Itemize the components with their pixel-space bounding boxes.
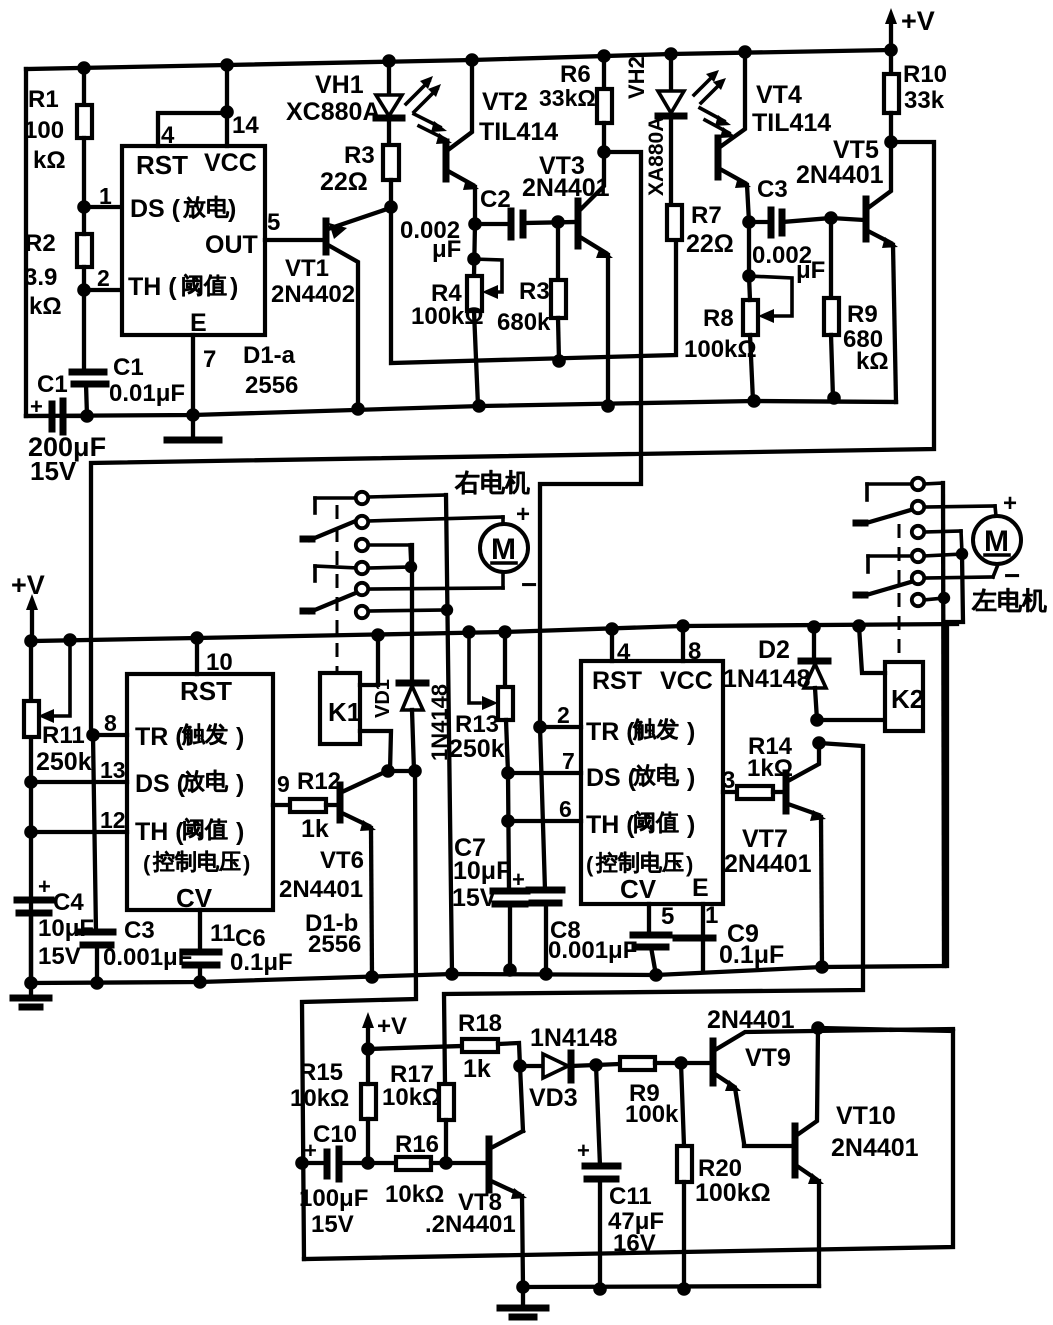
svg-text:): ): [236, 770, 244, 798]
wire pin 13 DS: [31, 757, 127, 783]
svg-text:6: 6: [559, 796, 572, 822]
capacitor C10 100uF: [295, 1121, 368, 1238]
wire pin 1 DS: [84, 205, 122, 209]
svg-text:C3: C3: [757, 176, 788, 203]
svg-text:12: 12: [100, 807, 126, 833]
diode VD3 1N4148: [520, 1024, 618, 1112]
capacitor C6 0.1uF on pin 11: [183, 910, 293, 989]
potentiometer R8 100k: [684, 222, 792, 401]
svg-text:C3: C3: [124, 917, 155, 944]
svg-text:+: +: [512, 867, 525, 892]
svg-text:CV: CV: [620, 874, 657, 904]
svg-text:0.01μF: 0.01μF: [109, 380, 185, 407]
svg-text:33k: 33k: [904, 87, 945, 114]
node R8 bottom bus: [747, 394, 761, 408]
svg-text:VT1: VT1: [285, 255, 329, 282]
svg-text:1N4148: 1N4148: [530, 1024, 618, 1052]
svg-text:2: 2: [97, 265, 110, 291]
svg-text:CV: CV: [176, 883, 213, 913]
svg-text:R2: R2: [25, 230, 56, 257]
svg-text:R9: R9: [847, 301, 878, 328]
transistor VT4 TIL414: [718, 52, 831, 222]
svg-text:VH2: VH2: [624, 56, 649, 99]
svg-text:): ): [687, 764, 695, 792]
wire collector junction horizontal: [388, 769, 415, 773]
svg-text:+V: +V: [377, 1013, 407, 1040]
op-amp U1 timer D1-a 2556 block: [122, 146, 265, 335]
ground bottom: [500, 1287, 546, 1317]
svg-text:VCC: VCC: [204, 149, 257, 177]
node VD3 cathode junction: [589, 1058, 603, 1072]
svg-text:D2: D2: [758, 636, 790, 664]
svg-text:100kΩ: 100kΩ: [684, 336, 757, 363]
transistor VT1 2N4402: [271, 208, 390, 409]
wire bottom bus of top section: [26, 401, 896, 416]
svg-text:1k: 1k: [301, 815, 329, 843]
node VD3 anode junction: [513, 1059, 527, 1073]
transistor VT5 2N4401: [796, 136, 898, 402]
svg-text:0.1μF: 0.1μF: [719, 941, 784, 969]
svg-text:kΩ: kΩ: [33, 147, 66, 174]
relay contacts K1: [303, 492, 503, 974]
light arrows into VT4: [700, 108, 736, 138]
potentiometer R4 100k: [411, 224, 502, 406]
wire pin 2 TH: [84, 288, 122, 292]
svg-text:8: 8: [104, 710, 117, 736]
svg-text:R16: R16: [395, 1131, 439, 1158]
capacitor C3 0.001uF (middle): [81, 735, 192, 983]
wire bottom block border loop: [304, 1028, 953, 1259]
wire bottom ground line: [523, 1286, 819, 1287]
svg-text:0.1μF: 0.1μF: [230, 949, 293, 976]
transistor VT3 2N4401: [522, 152, 613, 407]
node DS junction left rail: [24, 775, 38, 789]
resistor R7 22ohm: [667, 202, 734, 258]
svg-text:TH (: TH (: [128, 273, 177, 301]
svg-text:XA880A: XA880A: [645, 117, 668, 196]
svg-text:10kΩ: 10kΩ: [382, 1084, 441, 1111]
svg-text:2556: 2556: [245, 372, 298, 399]
node R15 C10 junction: [361, 1156, 375, 1170]
svg-text:100k: 100k: [625, 1101, 679, 1128]
svg-text:+: +: [516, 501, 530, 528]
wire pin 4 RST: [158, 113, 227, 149]
wire pin 12 TH: [31, 807, 127, 833]
svg-text:4: 4: [617, 639, 631, 666]
svg-text:TH (: TH (: [586, 811, 635, 839]
svg-text:RST: RST: [592, 667, 642, 695]
node TH junction left rail: [24, 825, 38, 839]
svg-text:250k: 250k: [449, 735, 505, 763]
svg-text:R1: R1: [28, 86, 59, 113]
capacitor C3 0.002uF: [749, 176, 831, 284]
svg-text:VT10: VT10: [836, 1102, 896, 1130]
svg-text:100kΩ: 100kΩ: [695, 1179, 771, 1207]
svg-text:+V: +V: [901, 6, 935, 36]
svg-text:2: 2: [557, 702, 570, 728]
svg-text:9: 9: [277, 771, 290, 797]
svg-text:): ): [228, 195, 236, 223]
svg-text:5: 5: [661, 903, 674, 930]
transistor VT10 2N4401: [795, 1028, 919, 1286]
relay coil K1: [320, 673, 361, 744]
op-amp U3 timer 2556 right block: [581, 661, 723, 904]
wire D2 junction to K2 bottom: [817, 718, 885, 722]
node VT6 emitter bus: [365, 970, 379, 984]
node VT1 emitter bus junction: [351, 402, 365, 416]
node pin1 junction: [77, 200, 91, 214]
svg-text:): ): [230, 273, 238, 301]
VH1 emitted light arrows: [406, 76, 441, 112]
resistor R6 33k: [539, 49, 612, 152]
LED VH1 XC880A: [286, 54, 402, 145]
svg-text:K2: K2: [891, 684, 924, 714]
svg-text:R15: R15: [299, 1059, 343, 1086]
svg-text:2N4401: 2N4401: [707, 1006, 795, 1034]
svg-text:DS (: DS (: [130, 195, 181, 223]
svg-text:2556: 2556: [308, 931, 361, 958]
potentiometer R13 250k: [449, 625, 513, 773]
svg-text:10kΩ: 10kΩ: [290, 1085, 349, 1112]
svg-text:M: M: [984, 525, 1009, 558]
wire VT7 collector feed to bottom block R17: [444, 743, 863, 1084]
svg-text:R20: R20: [698, 1155, 742, 1182]
node VT6 collector junction: [381, 764, 395, 778]
svg-text:2N4401: 2N4401: [831, 1134, 919, 1162]
node +V rail junction: [361, 1042, 375, 1056]
wire pin 9 OUT and resistor R12 1k: [273, 768, 341, 843]
svg-text:+: +: [1003, 490, 1017, 517]
relay contacts K2: [856, 478, 997, 966]
wire middle bottom bus: [31, 966, 945, 983]
wire pin 4 RST: [605, 622, 631, 666]
svg-text:DS (: DS (: [135, 770, 186, 798]
svg-text:100μF: 100μF: [299, 1185, 368, 1212]
svg-text:DS (: DS (: [586, 764, 637, 792]
wire left border: [24, 69, 28, 416]
svg-text:10kΩ: 10kΩ: [385, 1181, 444, 1208]
dashed mechanical link K2: [898, 524, 901, 662]
svg-text:250k: 250k: [36, 748, 92, 776]
svg-text:TH (: TH (: [135, 818, 184, 846]
node pin2 TR junction: [533, 720, 547, 734]
svg-text:TIL414: TIL414: [752, 109, 831, 137]
node R9 bottom bus: [827, 391, 841, 405]
svg-text:C1: C1: [113, 354, 144, 381]
node C3 left junction: [742, 215, 756, 229]
svg-text:0.001μF: 0.001μF: [103, 944, 192, 971]
relay coil K2: [885, 662, 924, 731]
node row1 line bottom bus: [445, 967, 459, 981]
capacitor C2 0.002uF: [400, 186, 576, 263]
wire VT5 feedback to TR of D1-b: [91, 142, 934, 735]
wire left rail x31: [29, 641, 33, 983]
wire VT3 collector long line to pin2 of right timer: [540, 152, 641, 727]
svg-text:11: 11: [210, 920, 235, 947]
capacitor C8 0.001uF: [529, 727, 637, 981]
svg-text:kΩ: kΩ: [856, 348, 889, 375]
resistor R3 22ohm: [320, 142, 399, 207]
diode VD1 1N4148: [372, 545, 452, 771]
resistor R17 10k: [382, 1061, 454, 1163]
node 680k bottom junction: [552, 354, 566, 368]
svg-text:): ): [687, 811, 695, 839]
resistor R2 3.9k: [24, 207, 92, 320]
capacitor C9 0.1uF on pin 5 CV: [633, 903, 784, 982]
svg-text:R8: R8: [703, 305, 734, 332]
wire pin 7 DS: [508, 748, 581, 774]
resistor R20 100k: [677, 1063, 771, 1289]
svg-text:7: 7: [562, 748, 575, 774]
svg-text:10: 10: [206, 649, 233, 676]
transistor VT9 2N4401: [681, 1006, 953, 1146]
power +V middle left: [11, 570, 45, 641]
svg-text:−: −: [1004, 560, 1020, 591]
svg-text:1N4148: 1N4148: [723, 665, 811, 693]
transistor VT7 2N4401: [724, 743, 826, 967]
diode D2 1N4148: [723, 620, 828, 720]
wire middle +V bus: [31, 624, 957, 641]
svg-text:R13: R13: [455, 711, 499, 738]
svg-text:15V: 15V: [30, 456, 77, 486]
svg-text:μF: μF: [432, 236, 461, 263]
resistor R16 10k: [368, 1131, 487, 1208]
node VT3 emitter bus: [601, 399, 615, 413]
node VT2 collector bus: [465, 53, 479, 67]
svg-text:C1: C1: [37, 371, 68, 398]
svg-text:100: 100: [24, 117, 64, 144]
resistor R9 680k: [824, 218, 889, 398]
node R20 bottom: [677, 1282, 691, 1296]
light arrows into VT2: [414, 114, 452, 144]
svg-text:1k: 1k: [463, 1055, 491, 1083]
node VT7 collector junction: [812, 736, 826, 750]
capacitor C1 200uF electrolytic: [26, 371, 106, 486]
power +V bottom block: [362, 1012, 407, 1049]
svg-text:0.001μF: 0.001μF: [548, 937, 637, 964]
svg-text:RST: RST: [180, 676, 232, 706]
node C3 right junction: [824, 211, 838, 225]
svg-text:15V: 15V: [452, 884, 497, 912]
node R6 bottom junction: [597, 145, 611, 159]
svg-text:R10: R10: [903, 61, 947, 88]
svg-text:R7: R7: [691, 202, 722, 229]
svg-text:TIL414: TIL414: [479, 118, 558, 146]
svg-text:4: 4: [161, 122, 175, 149]
wire pin 1 E: [703, 902, 718, 970]
svg-text:+V: +V: [11, 570, 45, 600]
svg-text:.2N4401: .2N4401: [425, 1211, 516, 1238]
svg-text:VT9: VT9: [745, 1044, 791, 1072]
LED VH2 XA880A: [624, 47, 684, 205]
svg-text:R11: R11: [42, 722, 85, 749]
svg-text:33kΩ: 33kΩ: [539, 85, 596, 111]
transistor VT8 2N4401: [425, 1066, 527, 1287]
svg-text:2N4401: 2N4401: [796, 161, 884, 189]
svg-text:TR (: TR (: [586, 718, 635, 746]
svg-text:VT4: VT4: [756, 81, 802, 109]
wire pin 7 E: [186, 335, 216, 422]
svg-text:C10: C10: [313, 1121, 357, 1148]
svg-text:VCC: VCC: [660, 667, 713, 695]
wire pin 6 TH: [508, 796, 581, 822]
svg-text:1: 1: [705, 902, 718, 929]
svg-text:C2: C2: [480, 186, 511, 213]
node R13 bottom junction: [501, 766, 515, 780]
transistor VT6 2N4401: [279, 771, 387, 977]
node VT8 emitter ground junction: [516, 1280, 530, 1294]
svg-text:M: M: [491, 533, 516, 566]
svg-text:C6: C6: [235, 925, 266, 952]
svg-text:15V: 15V: [311, 1211, 354, 1238]
node R4 bottom bus: [472, 399, 486, 413]
resistor R1 100k: [24, 68, 92, 207]
node pin2 junction: [77, 283, 91, 297]
svg-text:15V: 15V: [38, 943, 81, 970]
node R3 junction: [384, 200, 398, 214]
svg-text:7: 7: [203, 346, 216, 373]
svg-text:R18: R18: [458, 1010, 502, 1037]
VH2 emitted light arrows: [694, 70, 726, 103]
svg-text:22Ω: 22Ω: [320, 168, 368, 196]
svg-text:3: 3: [722, 767, 735, 794]
capacitor C11 47uF: [577, 1065, 664, 1289]
wire K2 top to bus: [852, 619, 885, 673]
node VT7 emitter bus: [815, 960, 829, 974]
svg-text:2N4401: 2N4401: [279, 876, 363, 903]
svg-text:): ): [236, 818, 244, 846]
svg-text:E: E: [692, 874, 709, 902]
svg-text:VD3: VD3: [529, 1084, 578, 1112]
svg-text:VT7: VT7: [742, 825, 788, 853]
wire pin 10 RST: [190, 631, 233, 676]
node R9 right junction: [674, 1056, 688, 1070]
node C3 bottom bus: [90, 976, 104, 990]
svg-text:VT6: VT6: [320, 847, 364, 874]
ground below pin 7: [167, 416, 219, 440]
svg-text:VT2: VT2: [482, 88, 528, 116]
wire K1 top to bus: [360, 628, 385, 685]
svg-text:8: 8: [688, 638, 701, 665]
wire top +V bus: [26, 50, 891, 69]
resistor R15 10k: [290, 1049, 376, 1163]
svg-text:D1-a: D1-a: [243, 342, 296, 369]
svg-text:(: (: [586, 852, 594, 877]
svg-text:R3: R3: [519, 278, 550, 305]
resistor R9 100k (bottom): [596, 1057, 681, 1128]
svg-text:5: 5: [267, 209, 280, 236]
svg-text:22Ω: 22Ω: [686, 230, 734, 258]
capacitor C4 10uF: [17, 874, 94, 983]
svg-text:(: (: [143, 851, 151, 876]
node C2 left junction: [468, 217, 482, 231]
svg-text:R12: R12: [297, 768, 341, 795]
svg-text:2N4401: 2N4401: [724, 850, 812, 878]
node R17 base junction: [439, 1156, 453, 1170]
transistor VT2 TIL414: [446, 60, 558, 224]
resistor R3 680k: [497, 222, 566, 361]
svg-text:): ): [687, 718, 695, 746]
svg-text:1: 1: [99, 183, 112, 209]
svg-text:): ): [236, 723, 244, 751]
resistor R10 33k: [884, 43, 947, 142]
wire pin 8 TR: [93, 710, 127, 736]
svg-text:+: +: [38, 874, 51, 899]
wire VD1/VT6 line down to bottom block: [302, 771, 416, 1259]
power +V (top right): [885, 6, 935, 50]
svg-text:C4: C4: [53, 889, 84, 916]
svg-text:14: 14: [232, 112, 259, 139]
wire pin 2 TR: [540, 702, 581, 728]
node VD1 bottom junction: [408, 764, 422, 778]
svg-text:10μF: 10μF: [453, 857, 511, 885]
svg-text:2N4402: 2N4402: [271, 281, 355, 308]
dashed mechanical link K1: [336, 505, 339, 672]
svg-text:VT5: VT5: [833, 136, 879, 164]
wire R3 down and inner horizontal: [391, 207, 676, 363]
motor M right (右电机): [455, 470, 537, 600]
svg-text:2N4401: 2N4401: [522, 174, 610, 202]
svg-text:−: −: [521, 569, 537, 600]
capacitor C7 10uF: [452, 773, 527, 977]
svg-text:OUT: OUT: [205, 231, 258, 259]
potentiometer R11 250k: [24, 633, 92, 776]
node VT9/VT10 collector junction: [811, 1021, 825, 1035]
node VT4 collector bus: [738, 45, 752, 59]
node C2/R3 junction: [551, 215, 565, 229]
node C1 bus junction: [80, 409, 94, 423]
ground middle left: [13, 976, 49, 1007]
svg-text:R3: R3: [344, 142, 375, 169]
node junction R1 top: [77, 61, 91, 75]
op-amp U2 timer D1-b 2556 block: [127, 674, 273, 910]
svg-text:): ): [243, 851, 250, 876]
motor M left (左电机): [972, 490, 1046, 612]
wire pin 8 VCC: [676, 619, 701, 665]
node VT5 collector junction: [884, 135, 898, 149]
node TR rail junction: [86, 728, 100, 742]
svg-text:R6: R6: [560, 61, 591, 88]
wire pin 14 VCC: [220, 58, 259, 146]
svg-text:VH1: VH1: [315, 71, 364, 99]
node D2 K2 junction: [810, 713, 824, 727]
wire pin 5 OUT to VT1 base: [265, 209, 324, 240]
svg-text:13: 13: [100, 757, 126, 783]
svg-text:100kΩ: 100kΩ: [411, 303, 484, 330]
capacitor C1 0.01uF: [72, 290, 185, 416]
svg-text:μF: μF: [796, 257, 825, 284]
resistor R14 1k and wire pin 3: [722, 733, 793, 799]
svg-text:C11: C11: [609, 1183, 652, 1210]
wire K1 bottom to junction: [360, 731, 391, 771]
svg-text:TR (: TR (: [135, 723, 184, 751]
svg-text:K1: K1: [328, 697, 361, 727]
node C11 bottom: [593, 1282, 607, 1296]
svg-text:3.9: 3.9: [24, 264, 57, 291]
svg-text:E: E: [190, 309, 207, 337]
svg-text:kΩ: kΩ: [29, 293, 62, 320]
svg-text:16V: 16V: [613, 1230, 656, 1257]
svg-text:VD1: VD1: [372, 679, 394, 718]
svg-text:680k: 680k: [497, 309, 551, 336]
svg-text:+: +: [577, 1138, 590, 1163]
resistor R18 1k and +V rail: [368, 1010, 520, 1083]
svg-text:RST: RST: [136, 150, 188, 180]
svg-text:XC880A: XC880A: [286, 98, 381, 126]
